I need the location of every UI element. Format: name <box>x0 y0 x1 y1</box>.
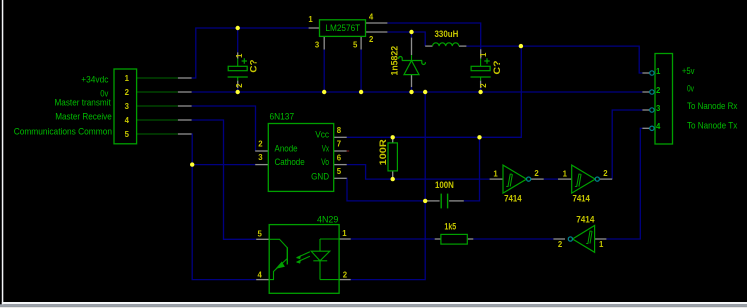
svg-text:2: 2 <box>258 140 263 149</box>
svg-text:C?: C? <box>492 60 503 74</box>
svg-text:LM2576T: LM2576T <box>325 23 360 34</box>
svg-text:4: 4 <box>369 12 374 21</box>
svg-text:Cathode: Cathode <box>275 157 305 168</box>
svg-text:6: 6 <box>337 153 342 162</box>
svg-text:7414: 7414 <box>572 194 590 205</box>
svg-text:100R: 100R <box>378 139 389 165</box>
svg-text:4: 4 <box>656 122 661 131</box>
svg-text:C?: C? <box>249 59 260 72</box>
svg-text:0v: 0v <box>687 83 694 94</box>
svg-text:2: 2 <box>235 83 244 88</box>
svg-text:2: 2 <box>656 86 661 95</box>
svg-text:To Nanode Tx: To Nanode Tx <box>687 121 738 132</box>
svg-text:2: 2 <box>534 169 539 178</box>
svg-text:Master transmit: Master transmit <box>55 98 112 109</box>
svg-text:+5v: +5v <box>682 66 695 77</box>
svg-text:1: 1 <box>235 53 244 58</box>
svg-text:1: 1 <box>479 52 488 57</box>
svg-text:7414: 7414 <box>576 214 595 225</box>
svg-text:3: 3 <box>315 40 320 49</box>
svg-text:1: 1 <box>342 229 347 238</box>
svg-text:2: 2 <box>125 88 130 97</box>
svg-text:100N: 100N <box>435 180 454 191</box>
svg-text:1: 1 <box>493 170 498 179</box>
svg-text:2: 2 <box>603 169 608 178</box>
svg-text:5: 5 <box>353 40 358 49</box>
svg-text:GND: GND <box>311 171 329 182</box>
svg-text:5: 5 <box>125 130 130 139</box>
svg-text:3: 3 <box>258 153 263 162</box>
svg-text:Vx: Vx <box>322 144 330 155</box>
svg-text:5: 5 <box>337 167 342 176</box>
svg-text:7: 7 <box>337 140 341 149</box>
svg-text:5: 5 <box>258 230 263 239</box>
svg-text:1: 1 <box>308 15 313 24</box>
svg-text:1: 1 <box>656 67 661 76</box>
svg-text:2: 2 <box>558 240 563 249</box>
svg-text:330uH: 330uH <box>435 29 459 40</box>
svg-text:7414: 7414 <box>504 194 522 205</box>
svg-text:Anode: Anode <box>275 144 298 155</box>
svg-text:4: 4 <box>258 270 263 279</box>
svg-text:Communications Common: Communications Common <box>14 126 112 137</box>
svg-text:1: 1 <box>563 170 568 179</box>
svg-text:2: 2 <box>369 35 374 44</box>
svg-text:4N29: 4N29 <box>317 214 338 225</box>
svg-text:3: 3 <box>125 102 130 111</box>
svg-text:1: 1 <box>599 240 604 249</box>
svg-text:1n5822: 1n5822 <box>389 46 400 76</box>
svg-text:Vcc: Vcc <box>315 129 329 140</box>
svg-text:4: 4 <box>125 116 130 125</box>
svg-text:8: 8 <box>337 126 342 135</box>
svg-text:1: 1 <box>125 74 130 83</box>
svg-text:Vo: Vo <box>321 157 329 168</box>
svg-text:2: 2 <box>479 83 488 88</box>
svg-text:+34vdc: +34vdc <box>81 75 108 86</box>
svg-text:To Nanode Rx: To Nanode Rx <box>687 101 738 112</box>
svg-text:3: 3 <box>656 104 661 113</box>
svg-text:1k5: 1k5 <box>444 221 456 232</box>
svg-text:Master Receive: Master Receive <box>55 112 112 123</box>
svg-text:2: 2 <box>343 270 348 279</box>
svg-text:6N137: 6N137 <box>270 112 295 123</box>
